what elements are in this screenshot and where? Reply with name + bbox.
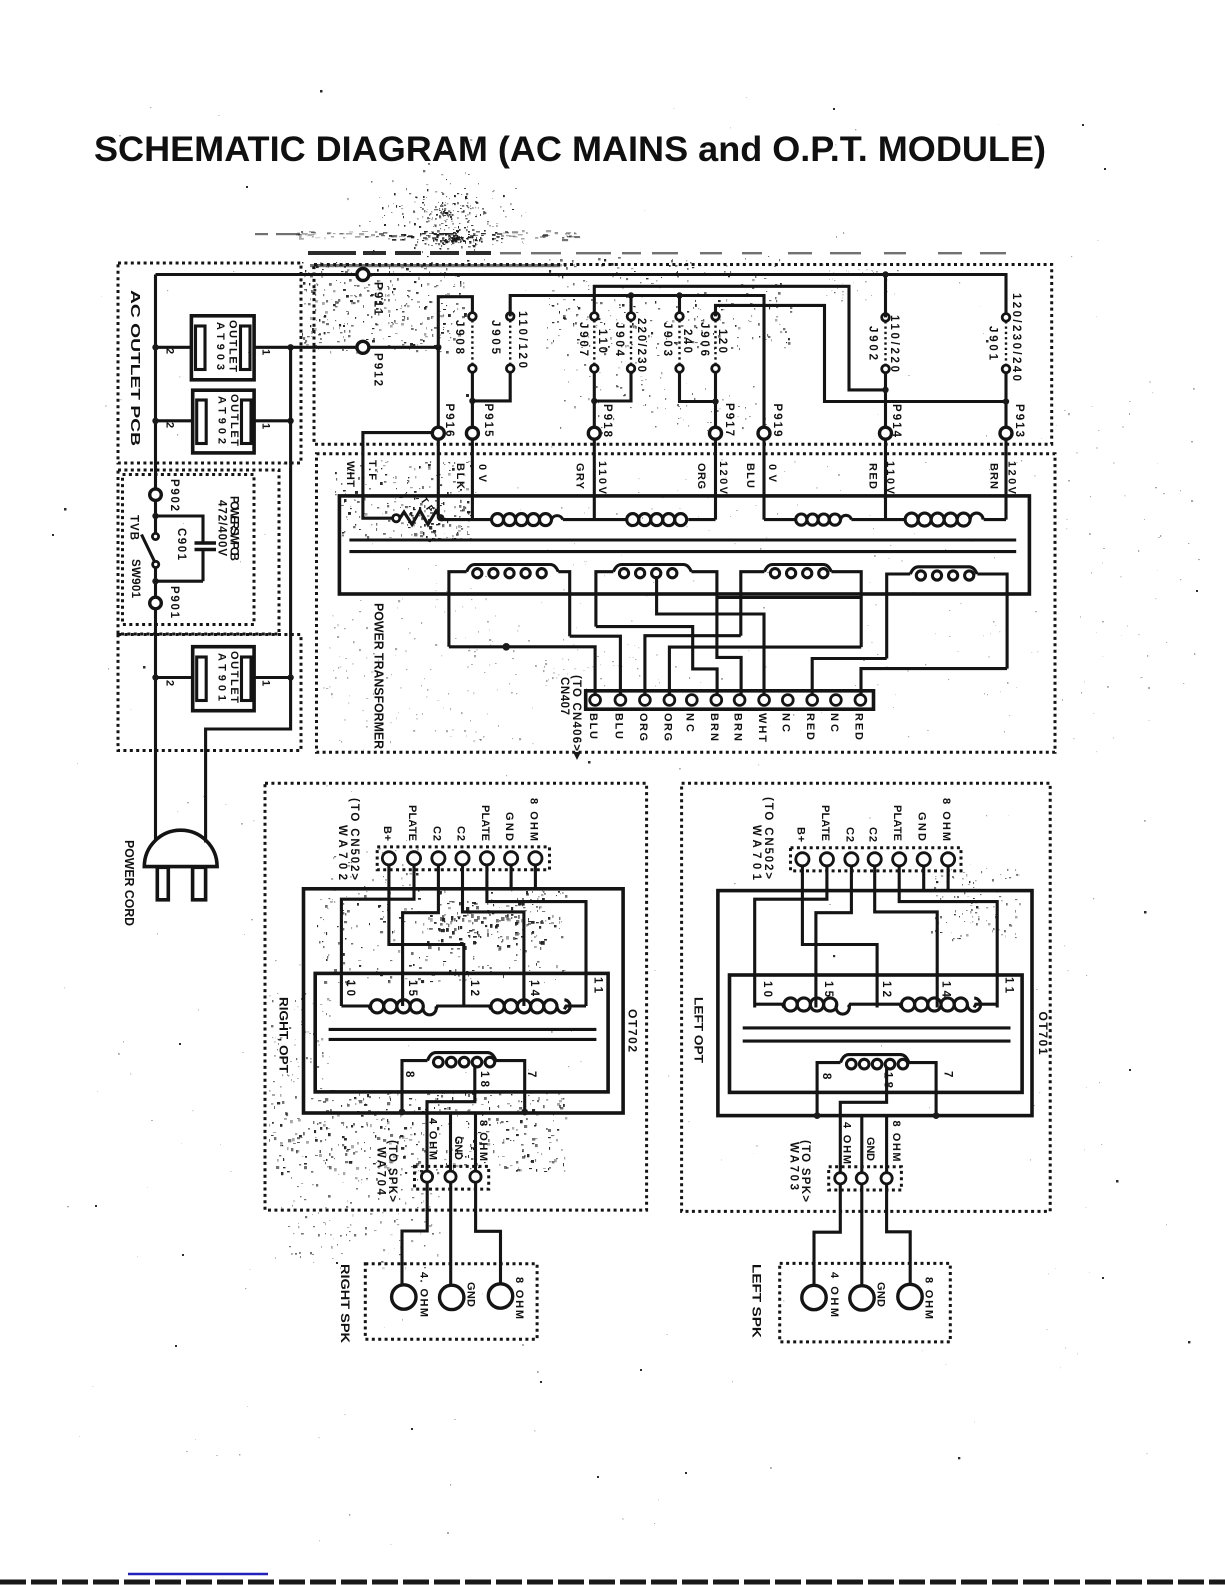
label WA704 (375, 1147, 387, 1196)
label 120V (ORG) (717, 461, 729, 495)
label P902 (168, 479, 180, 511)
svg-text:2: 2 (164, 422, 176, 428)
label 120 (716, 329, 728, 353)
junction tap bus over J904 (628, 292, 634, 298)
svg-text:4 OHM: 4 OHM (841, 1122, 853, 1164)
svg-text:AT902: AT902 (215, 396, 227, 444)
wire: S4 right end to CN407 pin12 (861, 669, 1007, 695)
svg-text:GND: GND (465, 1282, 477, 1307)
OT702 winding box (315, 973, 608, 1092)
wire: top AC line from bus to J901 corner (156, 275, 1007, 318)
pin label C2 (WA701) (843, 827, 855, 842)
label SW901 (129, 559, 141, 599)
svg-text:472/400V: 472/400V (216, 500, 228, 556)
svg-text:WA702: WA702 (336, 825, 348, 880)
pin number 2 (AT903) (164, 348, 176, 354)
svg-text:ORG: ORG (661, 713, 673, 741)
svg-text:WA701: WA701 (750, 825, 762, 881)
label OUTLET (AT903) (227, 320, 239, 372)
label GND (WA704) (452, 1136, 464, 1160)
svg-text:GND: GND (916, 812, 928, 841)
svg-text:WHT: WHT (756, 713, 768, 742)
label LEFT OPT (692, 997, 706, 1064)
pin number 11 (OT701) (1003, 977, 1015, 994)
junction blob on S1 wire (502, 643, 510, 651)
label TVB (128, 515, 140, 540)
label BRN (988, 463, 1000, 489)
svg-text:BLU: BLU (587, 713, 599, 739)
svg-text:8 OHM: 8 OHM (940, 798, 952, 841)
svg-text:120: 120 (716, 329, 728, 353)
label P901 (168, 586, 180, 619)
junction bus AT901 pin2 (152, 674, 158, 680)
svg-text:15: 15 (822, 981, 834, 998)
OT701 winding box (730, 975, 1023, 1092)
label 4 OHM (WA704) (427, 1118, 439, 1160)
label OUTLET (AT901) (228, 651, 240, 703)
jumper J905 (506, 313, 514, 373)
pin number 7 (OT701) (942, 1071, 954, 1077)
svg-text:BLK: BLK (454, 463, 466, 489)
junction J907/J904 tie (591, 398, 597, 404)
svg-text:110/220: 110/220 (888, 315, 900, 372)
label GND (left spk) (875, 1282, 887, 1307)
wire: S3 right end to CN407 pin4 (669, 647, 861, 695)
plug P911 (357, 269, 369, 281)
wire: WA701 B+ to tap 12 (802, 866, 877, 1008)
svg-text:P913: P913 (1013, 404, 1025, 437)
svg-text:PLATE: PLATE (406, 805, 418, 841)
wire: J908 bottom to P915 (471, 372, 474, 427)
primary winding 1 line (441, 518, 716, 521)
label 0V (BLK) (476, 464, 488, 483)
junction OT701 7 leg (933, 1112, 940, 1119)
pin number 1 (AT901) (260, 680, 272, 686)
svg-text:P917: P917 (723, 403, 735, 436)
svg-text:POWER SW PCB: POWER SW PCB (228, 496, 240, 561)
pin label ORG (CN407-3) (637, 713, 649, 741)
svg-text:J901: J901 (987, 326, 999, 361)
pin label C2 (WA701 second) (867, 827, 879, 842)
svg-text:BLU: BLU (744, 463, 756, 488)
label (TO SPK) left (799, 1140, 811, 1202)
svg-text:B+: B+ (381, 826, 393, 841)
plug P901 (150, 597, 162, 609)
pin number 12 (OT702) (468, 980, 480, 996)
svg-text:BRN: BRN (732, 713, 744, 741)
pin number 14 (OT702) (528, 980, 540, 997)
junction J906 tie (712, 398, 718, 404)
wire: bus from top wire down left side (node 2 bus) (154, 275, 157, 842)
OT701 secondary winding (817, 1055, 936, 1116)
svg-text:14: 14 (940, 981, 952, 998)
svg-text:220/230: 220/230 (635, 318, 647, 372)
label 110/120 (516, 311, 528, 368)
svg-text:OUTLET: OUTLET (228, 651, 240, 703)
pin label NC (CN407-5) (684, 713, 696, 732)
plug P912 (357, 341, 369, 353)
OT701 primary coil group 2 (901, 998, 980, 1011)
svg-text:C2: C2 (455, 826, 467, 841)
jumper J904 (627, 313, 635, 373)
wire: S2 center tap WHT to CN407 pin8 (657, 576, 764, 695)
svg-text:WHT: WHT (344, 461, 356, 487)
wire: WA704 4ohm to right speaker (402, 1182, 427, 1285)
secondary winding S2 (ORG center WHT) (596, 565, 717, 627)
pin number 12 (OT701) (880, 981, 892, 997)
pin number 2 (AT901) (164, 680, 176, 686)
OT702 secondary winding (402, 1053, 525, 1112)
junction J901 chain / wire D (1003, 398, 1009, 404)
page bottom dashed edge (0, 1580, 1225, 1585)
connector WA703 (829, 1167, 902, 1190)
junction tap bus over J903 (676, 292, 682, 298)
pin label NC (CN407-11) (828, 713, 840, 732)
LEFT SPK dashed box (780, 1263, 951, 1342)
svg-text:P915: P915 (482, 404, 494, 438)
svg-text:LEFT SPK: LEFT SPK (750, 1264, 764, 1338)
pin label GND (WA702) (503, 812, 515, 841)
wire: WA702 B+ to tap 12 (389, 865, 464, 1006)
jumper J903 (676, 313, 684, 373)
left OPT dashed box (682, 783, 1051, 1211)
label 220/230 (635, 318, 647, 372)
power transformer dashed box (317, 454, 1056, 753)
svg-text:AT903: AT903 (214, 322, 226, 370)
svg-text:POWER CORD: POWER CORD (122, 840, 137, 926)
svg-text:POWER TRANSFORMER: POWER TRANSFORMER (372, 603, 386, 749)
svg-text:(TO CN502>: (TO CN502> (348, 798, 360, 880)
svg-text:(TO CN502>: (TO CN502> (762, 797, 774, 879)
label J901 (987, 326, 999, 361)
plug P917 (710, 427, 722, 439)
blue pen line (128, 1573, 268, 1575)
label P914 (890, 404, 902, 438)
wire: OT702 tap 18 to WA704 4ohm (427, 1065, 475, 1171)
svg-text:RED: RED (867, 463, 879, 489)
primary winding solid box (339, 496, 1029, 594)
connector WA701 (TO CN502) (791, 848, 962, 871)
label 472/400V (216, 500, 228, 556)
pin label NC (CN407-9) (780, 713, 792, 732)
switch SW901 arm (142, 535, 155, 562)
wire: S2 right end to CN407 pin7 (717, 598, 741, 695)
svg-text:4 OHM: 4 OHM (828, 1272, 840, 1317)
junction top line / J902 (882, 271, 888, 277)
svg-text:AC OUTLET PCB: AC OUTLET PCB (128, 290, 143, 446)
plug P914 (880, 427, 892, 439)
svg-text:(TO CN406>: (TO CN406> (570, 675, 582, 751)
svg-text:P902: P902 (168, 479, 180, 511)
wire: J905 top to tap bus C (510, 296, 764, 428)
junction on bus at AT903 pin2 (152, 344, 158, 350)
label J905 (489, 320, 501, 355)
svg-text:RED: RED (804, 713, 816, 740)
svg-text:C901: C901 (175, 528, 187, 561)
right OPT dashed box (265, 783, 647, 1210)
svg-text:OUTLET: OUTLET (228, 394, 240, 446)
right speaker terminal GND (440, 1285, 464, 1309)
label RIGHT SPK (338, 1264, 352, 1343)
label P912 (372, 353, 384, 386)
label 120V (BRN) (1006, 461, 1018, 495)
right speaker terminal 8 OHM (488, 1284, 512, 1308)
svg-text:7: 7 (525, 1071, 537, 1077)
svg-text:240: 240 (681, 329, 693, 353)
wire: box edge to WA703 8ohm (885, 1117, 888, 1173)
svg-text:GND: GND (503, 812, 515, 841)
svg-text:8: 8 (403, 1071, 415, 1078)
pin number 10 (OT702) (344, 980, 356, 996)
svg-text:PLATE: PLATE (819, 805, 831, 841)
primary winding 1 coil A (492, 514, 563, 526)
wire: stub to J903 top (678, 296, 681, 317)
junction OT701 8 leg (814, 1112, 821, 1119)
label P915 (482, 404, 494, 438)
svg-text:P918: P918 (601, 404, 613, 438)
junction AT901 pin1 right bus (287, 674, 293, 680)
pin label C2 (WA702) (430, 826, 442, 841)
svg-text:OT701: OT701 (1036, 1012, 1050, 1055)
pin label BRN (CN407-6) (708, 713, 720, 741)
svg-text:110/120: 110/120 (516, 311, 528, 368)
svg-text:J902: J902 (867, 326, 879, 360)
svg-text:1: 1 (260, 680, 272, 686)
svg-text:GND: GND (452, 1136, 464, 1160)
svg-text:J904: J904 (613, 322, 625, 357)
svg-text:OUTLET: OUTLET (227, 320, 239, 372)
plug P902 (150, 489, 162, 501)
svg-text:12: 12 (880, 981, 892, 997)
wire: J905 bottom tie (472, 372, 510, 401)
junction bus to C901 bottom (152, 578, 158, 584)
wire: P913 BRN drop (1004, 439, 1007, 520)
wire: S1 right end to CN407 pin2 (570, 636, 621, 695)
wire: WA704 gnd to right speaker (449, 1182, 452, 1286)
svg-text:18: 18 (478, 1071, 490, 1088)
label AT901 (215, 653, 227, 701)
wire: AC line 2 from AT903 pin1 through P912 to J908 node (254, 346, 438, 349)
wire: P915 BLK drop (471, 439, 474, 520)
pin number 15 (OT701) (822, 981, 834, 998)
label 0V (BLU) (766, 464, 778, 483)
label 110V (RED) (884, 461, 896, 495)
wire: WA702 plate to tap 11 (487, 865, 586, 1006)
label AT902 (215, 396, 227, 444)
jumper area dashed box (314, 265, 1052, 445)
label P918 (601, 404, 613, 438)
OT702 core lines (329, 1029, 597, 1039)
svg-text:PLATE: PLATE (479, 805, 491, 841)
svg-text:P916: P916 (443, 404, 455, 437)
svg-text:AT901: AT901 (215, 653, 227, 701)
title (94, 130, 1046, 169)
label (TO CN502) (348, 798, 360, 880)
pin number 10 (OT701) (761, 981, 773, 997)
OT701 core lines (743, 1028, 1011, 1041)
OT701 primary winding line (755, 1004, 998, 1007)
junction bus to C901 top (152, 513, 158, 519)
svg-text:120/230/240: 120/230/240 (1010, 293, 1022, 381)
label POWER CORD (122, 840, 137, 926)
svg-text:1: 1 (260, 423, 272, 429)
label T.F (366, 460, 378, 480)
OT701 primary coil group 1 (784, 998, 849, 1014)
svg-text:PLATE: PLATE (891, 805, 903, 841)
transformer core lines (349, 540, 1016, 552)
wire: J904 bottom tie (594, 372, 631, 401)
label ORG (695, 463, 707, 489)
plug P919 (758, 427, 770, 439)
pin label PLATE (WA702 second) (479, 805, 491, 841)
label (TO SPK) (386, 1140, 398, 1202)
pin label B+ (WA701) (794, 827, 806, 842)
pin number 1 (AT902) (260, 423, 272, 429)
junction fuse right end (437, 514, 444, 521)
connector WA702 (TO CN502) (377, 847, 549, 870)
wire: P918 GRY drop (593, 439, 596, 520)
wire: P916 WHT drop to fuse (363, 433, 432, 519)
junction J902 chain / wire B (882, 387, 888, 393)
OT702 primary winding line (341, 1006, 586, 1009)
plug P916 (432, 427, 444, 439)
label LEFT SPK (750, 1264, 764, 1338)
label 8 OHM (WA704) (477, 1120, 489, 1161)
svg-text:NC: NC (684, 713, 696, 732)
wire: P912 node up-over to J908 top (438, 297, 472, 348)
label 240 (681, 329, 693, 353)
pin number 18 (OT702) (478, 1071, 490, 1088)
wire: WA703 8ohm to left speaker (887, 1184, 911, 1285)
pin number 2 (AT902) (164, 422, 176, 428)
label GND (right spk) (465, 1282, 477, 1307)
wire: AT901 pin2 (156, 676, 193, 679)
wire: AT902 pin2 (156, 419, 193, 422)
primary winding 2 coil D (905, 513, 983, 526)
wire: J902 top to AC top line (884, 275, 887, 318)
svg-text:8 OHM: 8 OHM (513, 1277, 525, 1319)
secondary winding S4 (RED) (887, 567, 1007, 669)
wire: WA702 plate to tap 10 (341, 865, 414, 1006)
pin label 8 OHM (WA702) (528, 798, 540, 841)
svg-text:10: 10 (344, 980, 356, 996)
label C901 (175, 528, 187, 561)
svg-text:RED: RED (852, 713, 864, 740)
label 8 OHM (left spk) (923, 1277, 935, 1319)
wire: WA702 C2 to tap 15 (403, 865, 439, 1006)
junction OT702 8 leg (399, 1109, 406, 1116)
left speaker terminal 8 OHM (898, 1284, 922, 1308)
S3 base line (717, 596, 861, 599)
svg-text:J908: J908 (453, 320, 465, 355)
wire: right bus (outlet pin1 bus) down to AT901 (289, 347, 292, 677)
svg-text:2: 2 (164, 680, 176, 686)
svg-text:BRN: BRN (708, 713, 720, 741)
wire: P917 ORG drop (714, 439, 717, 520)
junction on bus at AT902 pin2 (152, 418, 158, 424)
svg-text:1: 1 (260, 349, 272, 355)
label J903 (661, 322, 673, 356)
thermal fuse T.F (393, 511, 441, 525)
jumper J908 (469, 313, 477, 373)
svg-text:BLU: BLU (612, 713, 624, 739)
svg-text:TVB: TVB (128, 515, 140, 540)
label WA703 (788, 1142, 800, 1190)
label WHT (344, 461, 356, 487)
pin number 11 (OT702) (592, 977, 604, 994)
svg-text:T.F: T.F (366, 460, 378, 480)
svg-text:P901: P901 (168, 586, 180, 619)
label P919 (771, 404, 783, 437)
svg-text:8 OHM: 8 OHM (477, 1120, 489, 1161)
label BLU (744, 463, 756, 488)
label P913 (1013, 404, 1025, 437)
label 110 (596, 329, 608, 353)
right speaker terminal 4 OHM (392, 1285, 416, 1309)
svg-text:14: 14 (528, 980, 540, 997)
svg-text:120V: 120V (717, 461, 729, 495)
secondary winding S3 (BRN) (741, 565, 861, 648)
svg-text:NC: NC (828, 713, 840, 732)
svg-text:SCHEMATIC DIAGRAM (AC MAINS an: SCHEMATIC DIAGRAM (AC MAINS and O.P.T. M… (94, 130, 1046, 169)
wire: WA701 plate to tap 11 (899, 866, 997, 1008)
pin number 18 (OT701) (882, 1072, 894, 1089)
OT702 primary coil group 1 (371, 1000, 437, 1015)
svg-text:P919: P919 (771, 404, 783, 437)
label CN407 (558, 677, 570, 715)
pin label PLATE (WA702) (406, 805, 418, 841)
wire: J901 bottom down to P913 (1004, 373, 1007, 428)
wire: WA702 GND to box edge (510, 865, 513, 889)
label GND (WA703) (864, 1137, 876, 1161)
pin number 15 (OT702) (406, 980, 418, 997)
svg-text:0V: 0V (766, 464, 778, 483)
wire: J907 top to J902 chain (wire B) (594, 286, 885, 390)
jumper J906 (712, 313, 720, 373)
svg-text:GRY: GRY (574, 463, 586, 490)
label GRY (574, 463, 586, 490)
label 110/220 (888, 315, 900, 372)
wire: WA701 C2 to tap 15 (816, 866, 852, 1008)
secondary winding S1 (BLU) (449, 565, 570, 647)
pin number 8 (OT702) (403, 1071, 415, 1078)
svg-text:GND: GND (864, 1137, 876, 1161)
label 110V (GRY) (596, 461, 608, 495)
svg-text:110V: 110V (596, 461, 608, 495)
wire: AT901 pin1 (254, 676, 291, 679)
connector CN407 (586, 691, 874, 709)
AC OUTLET PCB dashed box (118, 263, 301, 463)
capacitor C901 (195, 543, 217, 581)
svg-text:WA704: WA704 (375, 1147, 387, 1196)
wire: P914 RED drop (884, 439, 887, 520)
label J907 (577, 322, 589, 356)
POWER SW PCB outer dashed box (118, 470, 279, 634)
pin number 1 (AT903) (260, 349, 272, 355)
wire: box edge to WA704 8ohm (474, 1113, 477, 1171)
svg-text:B+: B+ (794, 827, 806, 842)
outlet AT903 (191, 316, 254, 380)
wire: to C901 top (156, 516, 204, 542)
wire: J902 bottom down to P914 (884, 373, 887, 428)
pin label GND (WA701) (916, 812, 928, 841)
pin label PLATE (WA701 second) (891, 805, 903, 841)
label OUTLET (AT902) (228, 394, 240, 446)
svg-text:8 OHM: 8 OHM (528, 798, 540, 841)
wire: WA701 GND to box edge (922, 866, 925, 891)
label P911 (372, 282, 384, 316)
wire: WA704 8ohm to right speaker (476, 1182, 501, 1284)
